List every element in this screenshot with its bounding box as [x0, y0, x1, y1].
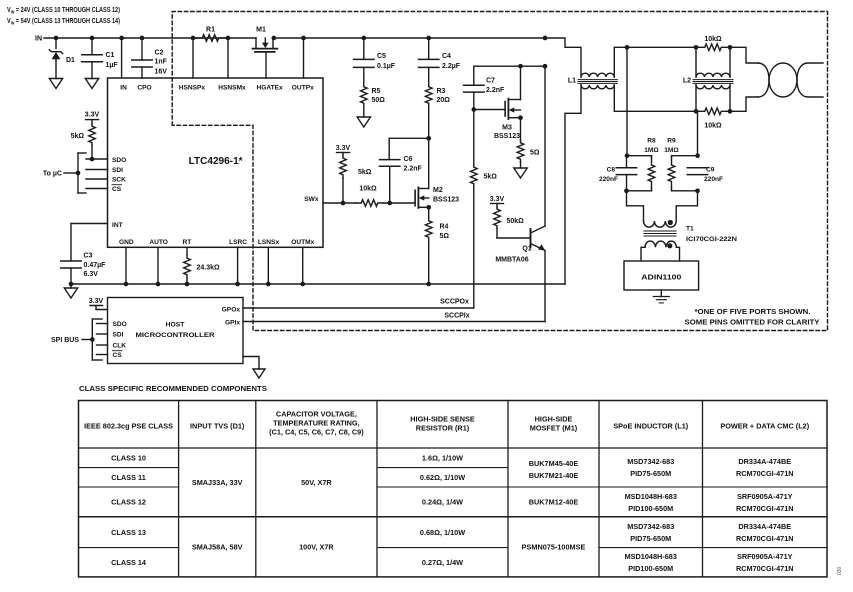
svg-text:R8: R8 [647, 138, 656, 145]
svg-text:2.2µF: 2.2µF [442, 63, 461, 70]
power 3.3V host [89, 298, 108, 310]
svg-text:HOST: HOST [166, 322, 186, 329]
svg-text:RCM70CGI-471N: RCM70CGI-471N [736, 469, 794, 478]
svg-text:IN: IN [35, 36, 42, 43]
ground M3 [514, 168, 527, 178]
wire IN pin riser [121, 38, 123, 78]
svg-text:0.62Ω, 1/10W: 0.62Ω, 1/10W [420, 473, 465, 482]
svg-text:R4: R4 [440, 224, 449, 231]
wire Q1 emitter to SCCPIx [544, 251, 546, 322]
wire main input rail [44, 37, 256, 39]
wire INT [71, 224, 108, 262]
svg-text:MSD1048H-683: MSD1048H-683 [625, 552, 677, 561]
wire Q1 base [497, 237, 531, 239]
svg-text:5kΩ: 5kΩ [71, 133, 85, 140]
wire rail to L1 top [545, 38, 581, 77]
svg-text:LSNSx: LSNSx [258, 239, 280, 246]
svg-text:C6: C6 [404, 156, 413, 163]
svg-text:CLASS 10: CLASS 10 [111, 453, 146, 462]
bus bracket SPI [92, 319, 102, 360]
svg-text:0.47µF: 0.47µF [84, 262, 107, 269]
wire M3 gate link [471, 107, 505, 112]
ground host [243, 357, 265, 379]
svg-text:OUTMx: OUTMx [291, 239, 314, 246]
op-amp U1 LTC4296-1 box [108, 78, 324, 247]
svg-text:20Ω: 20Ω [437, 97, 451, 104]
svg-text:030: 030 [837, 566, 843, 575]
capacitor C4 [419, 38, 461, 70]
svg-text:1µF: 1µF [106, 62, 119, 69]
svg-text:BUK7M21-40E: BUK7M21-40E [529, 471, 579, 480]
svg-text:0.1µF: 0.1µF [377, 63, 396, 70]
svg-text:HIGH-SIDE SENSE: HIGH-SIDE SENSE [410, 415, 475, 424]
svg-text:5kΩ: 5kΩ [484, 174, 498, 181]
table col7 cmc [736, 457, 794, 573]
svg-text:BUK7M12-40E: BUK7M12-40E [529, 498, 579, 507]
svg-text:3.3V: 3.3V [336, 145, 351, 152]
junction dots ground rail [69, 282, 431, 287]
pin label host CS [113, 351, 123, 359]
svg-text:VIN = 54V (CLASS 13 THROUGH CL: VIN = 54V (CLASS 13 THROUGH CLASS 14) [7, 18, 120, 26]
resistor 10k top [696, 36, 732, 51]
wire SDI stub [86, 169, 108, 171]
svg-text:SOME PINS OMITTED FOR CLARITY: SOME PINS OMITTED FOR CLARITY [685, 320, 820, 327]
inductor L2 [683, 47, 733, 111]
svg-text:SPoE INDUCTOR (L1): SPoE INDUCTOR (L1) [613, 422, 688, 431]
svg-text:ADIN1100: ADIN1100 [641, 272, 681, 281]
svg-text:24.3kΩ: 24.3kΩ [197, 265, 221, 272]
svg-text:Q1: Q1 [522, 246, 531, 253]
svg-text:C1: C1 [106, 52, 115, 59]
svg-text:CLASS 11: CLASS 11 [111, 473, 145, 482]
svg-text:MSD7342-683: MSD7342-683 [627, 522, 674, 531]
ground ADIN1100 earth [653, 290, 669, 303]
capacitor C1 [82, 38, 119, 79]
svg-text:*ONE OF FIVE PORTS SHOWN.: *ONE OF FIVE PORTS SHOWN. [695, 309, 811, 316]
resistor 50k Q1 [494, 204, 524, 239]
wire host CS stub [97, 354, 108, 356]
svg-text:T1: T1 [686, 226, 694, 233]
svg-text:50kΩ: 50kΩ [507, 218, 525, 225]
junction dots termination [624, 188, 700, 193]
capacitor C5 [354, 38, 396, 70]
svg-text:220nF: 220nF [599, 176, 618, 183]
svg-text:SCCPIx: SCCPIx [444, 313, 469, 320]
note pins omitted [685, 320, 820, 327]
svg-text:LTC4296-1*: LTC4296-1* [189, 156, 243, 167]
diode D1 TVS [49, 38, 75, 79]
pin label CS [112, 185, 122, 193]
caption class specific [79, 384, 267, 393]
wire L1 bottom right [614, 85, 627, 111]
pin label RT [183, 239, 192, 246]
svg-text:SDO: SDO [112, 157, 126, 164]
svg-text:R9: R9 [667, 138, 676, 145]
resistor 10k bottom [696, 108, 732, 130]
svg-text:5kΩ: 5kΩ [358, 169, 372, 176]
table col4 R1 values [420, 453, 465, 566]
svg-text:0.24Ω, 1/4W: 0.24Ω, 1/4W [422, 498, 463, 507]
svg-text:M3: M3 [502, 125, 512, 132]
svg-text:PID75-650M: PID75-650M [630, 469, 671, 478]
wire To uC [43, 171, 80, 178]
wire OUTPx riser [303, 38, 305, 78]
svg-text:RCM70CGI-471N: RCM70CGI-471N [736, 534, 794, 543]
svg-text:SMAJ58A, 58V: SMAJ58A, 58V [192, 542, 243, 551]
svg-text:PSMN075-100MSE: PSMN075-100MSE [522, 542, 586, 551]
resistor R3 [425, 67, 450, 138]
svg-text:PID100-650M: PID100-650M [628, 504, 673, 513]
svg-text:IN: IN [120, 84, 127, 91]
pin label host SDO [113, 321, 127, 328]
twisted pair [758, 63, 823, 97]
resistor 5k SCCPO [471, 110, 498, 309]
wire ground return rail [71, 283, 565, 285]
resistor 10k SWx [355, 186, 384, 207]
pin label LSRC [229, 239, 247, 246]
junction dots main rail [54, 36, 548, 41]
resistor 24.3k RT [184, 247, 220, 284]
svg-text:ICI70CGI-222N: ICI70CGI-222N [686, 236, 737, 243]
svg-text:R5: R5 [372, 88, 381, 95]
wire LSNSx pin drop [267, 247, 269, 284]
capacitor C3 [61, 253, 106, 284]
svg-text:2.2nF: 2.2nF [486, 87, 505, 94]
svg-text:SMAJ33A, 33V: SMAJ33A, 33V [192, 478, 243, 487]
wire AUTO pin drop [157, 247, 159, 284]
svg-text:SRF0905A-471Y: SRF0905A-471Y [737, 552, 793, 561]
svg-text:SDO: SDO [113, 321, 127, 328]
svg-text:D1: D1 [66, 57, 75, 64]
resistor 5ohm M3 [517, 118, 540, 168]
svg-text:C7: C7 [486, 77, 495, 84]
svg-text:C4: C4 [442, 53, 451, 60]
svg-text:CLASS 14: CLASS 14 [111, 558, 147, 567]
inductor L1 [568, 73, 617, 89]
net label VIN=54V note [7, 18, 120, 26]
pin label SWx [304, 196, 319, 203]
wire SWx [323, 201, 415, 206]
svg-text:CS: CS [113, 352, 123, 359]
svg-text:10kΩ: 10kΩ [704, 123, 722, 130]
pin label HSNSMx [218, 84, 246, 91]
svg-text:GND: GND [119, 239, 134, 246]
figure number rotated [837, 566, 843, 575]
svg-text:LSRC: LSRC [229, 239, 247, 246]
wire host SDO stub [97, 323, 108, 325]
svg-text:GPOx: GPOx [222, 306, 241, 313]
capacitor C6 [380, 156, 423, 203]
dashed port boundary [172, 12, 827, 331]
svg-text:5Ω: 5Ω [440, 233, 450, 240]
transistor M2 BSS123 [415, 138, 459, 209]
svg-text:16V: 16V [155, 69, 168, 76]
pin label HGATEx [256, 84, 283, 91]
svg-text:GPIx: GPIx [225, 319, 240, 326]
svg-text:1.6Ω, 1/10W: 1.6Ω, 1/10W [422, 453, 463, 462]
svg-text:C8: C8 [607, 167, 616, 174]
svg-text:HSNSMx: HSNSMx [218, 84, 246, 91]
wire T1 secondary leads [641, 247, 680, 261]
svg-text:HIGH-SIDE: HIGH-SIDE [535, 415, 573, 424]
svg-text:100V, X7R: 100V, X7R [299, 542, 334, 551]
wire twisted pair top lead [730, 47, 758, 63]
svg-text:MICROCONTROLLER: MICROCONTROLLER [136, 332, 215, 339]
wire M1 gate to HGATEx [265, 53, 267, 78]
wire SCK stub [86, 178, 108, 180]
ground D1 [49, 79, 62, 89]
transformer T1 [644, 220, 738, 249]
wire SPI BUS [51, 337, 95, 344]
svg-text:INPUT TVS (D1): INPUT TVS (D1) [190, 422, 245, 431]
svg-text:SRF0905A-471Y: SRF0905A-471Y [737, 492, 793, 501]
svg-text:RCM70CGI-471N: RCM70CGI-471N [736, 504, 794, 513]
svg-text:INT: INT [112, 222, 123, 229]
wire SCCPIx [243, 313, 545, 322]
pin label SDI [112, 167, 123, 174]
node IN label [35, 36, 42, 43]
svg-text:CAPACITOR VOLTAGE,: CAPACITOR VOLTAGE, [276, 410, 357, 419]
svg-text:RCM70CGI-471N: RCM70CGI-471N [736, 564, 794, 573]
table col3 cap rating [299, 478, 334, 552]
power 3.3V SWx pullup [336, 145, 351, 153]
svg-text:BUK7M45-40E: BUK7M45-40E [529, 459, 579, 468]
svg-text:6.3V: 6.3V [84, 271, 99, 278]
note one of five ports [695, 309, 811, 316]
svg-text:BSS123: BSS123 [433, 196, 459, 203]
ground R5 [357, 117, 370, 127]
svg-text:BSS123: BSS123 [494, 133, 520, 140]
svg-text:10kΩ: 10kΩ [359, 186, 377, 193]
pin label OUTPx [292, 84, 314, 91]
svg-text:CS: CS [112, 186, 122, 193]
ground C1 [85, 79, 98, 89]
svg-text:SCCPOx: SCCPOx [440, 299, 469, 306]
svg-text:3.3V: 3.3V [89, 298, 104, 305]
resistor R4 [425, 207, 449, 284]
wire main rail M1 to L1 corner [273, 37, 545, 39]
svg-text:IEEE 802.3cg PSE CLASS: IEEE 802.3cg PSE CLASS [84, 422, 173, 431]
svg-text:HSNSPx: HSNSPx [179, 84, 206, 91]
svg-text:50Ω: 50Ω [372, 97, 386, 104]
wire SCCPOx [243, 299, 474, 309]
svg-text:SDI: SDI [112, 167, 123, 174]
pin label GND [119, 239, 134, 246]
svg-text:R1: R1 [206, 27, 215, 34]
pin label AUTO [149, 239, 168, 246]
power 3.3V Q1 [490, 196, 505, 204]
capacitor C2 [132, 38, 168, 78]
transistor M1 PMOS [253, 27, 278, 52]
svg-text:MSD7342-683: MSD7342-683 [627, 457, 674, 466]
svg-text:5Ω: 5Ω [530, 150, 540, 157]
power 3.3V SDO pullup [85, 112, 100, 120]
svg-text:C3: C3 [84, 253, 93, 260]
resistor 5k SDO pullup [71, 120, 96, 162]
svg-text:SDI: SDI [113, 331, 124, 338]
capacitor C7 [464, 66, 505, 109]
pin label HSNSPx [179, 84, 206, 91]
wire host SDI stub [97, 333, 108, 335]
svg-text:To µC: To µC [43, 171, 62, 178]
svg-text:MOSFET (M1): MOSFET (M1) [530, 424, 578, 433]
wire T1 primary left [627, 191, 644, 221]
pin label host GPIx [225, 319, 240, 326]
svg-text:AUTO: AUTO [149, 239, 168, 246]
pin label CPO [137, 84, 151, 91]
svg-text:M1: M1 [256, 27, 266, 34]
svg-text:TEMPERATURE RATING,: TEMPERATURE RATING, [273, 419, 359, 428]
svg-text:M2: M2 [433, 187, 443, 194]
svg-text:3.3V: 3.3V [85, 112, 100, 119]
op-amp U2 HOST box [108, 298, 244, 364]
svg-text:CLASS 13: CLASS 13 [111, 528, 146, 537]
table grid [79, 401, 828, 577]
resistor 5k SWx pullup [340, 153, 372, 204]
svg-text:C2: C2 [155, 50, 164, 57]
svg-text:OUTPx: OUTPx [292, 84, 314, 91]
svg-text:1MΩ: 1MΩ [664, 147, 679, 154]
resistor R8 [627, 138, 660, 191]
svg-text:MSD1048H-683: MSD1048H-683 [625, 492, 677, 501]
transistor Q1 MMBTA06 [495, 66, 545, 263]
op-amp U3 ADIN1100 box [624, 261, 699, 290]
capacitor C8 [599, 156, 637, 191]
svg-text:VIN = 24V (CLASS 10 THROUGH CL: VIN = 24V (CLASS 10 THROUGH CLASS 12) [7, 7, 120, 15]
svg-text:R3: R3 [437, 88, 446, 95]
capacitor C9 [687, 167, 723, 183]
wire LSRC pin drop [237, 247, 239, 284]
svg-text:SWx: SWx [304, 196, 319, 203]
pin label LSNSx [258, 239, 280, 246]
svg-text:C9: C9 [706, 167, 715, 174]
net label VIN=24V note [7, 7, 120, 15]
wire OUTMx pin drop [302, 247, 304, 284]
wire T1 primary right [676, 191, 697, 221]
svg-text:220nF: 220nF [704, 176, 723, 183]
svg-text:CLK: CLK [113, 342, 127, 349]
wire L1 bottom left return [565, 85, 581, 284]
svg-text:1nF: 1nF [155, 59, 168, 66]
wire bottom pair link [627, 109, 698, 114]
pin label SDO [112, 157, 126, 164]
wire CS stub [86, 188, 108, 190]
svg-text:HGATEx: HGATEx [256, 84, 283, 91]
svg-text:CLASS 12: CLASS 12 [111, 498, 146, 507]
svg-text:(C1, C4, C5, C6, C7, C8, C9): (C1, C4, C5, C6, C7, C8, C9) [269, 428, 364, 437]
pin label host GPOx [222, 306, 241, 313]
wire HSNSPx riser [192, 38, 194, 78]
svg-text:DR334A-474BE: DR334A-474BE [738, 522, 791, 531]
pin label INT [112, 222, 123, 229]
wire C9 drop [695, 111, 700, 158]
pin label OUTMx [291, 239, 314, 246]
pin label host CLK [113, 342, 127, 349]
svg-text:C5: C5 [377, 53, 386, 60]
svg-text:PID100-650M: PID100-650M [628, 564, 673, 573]
svg-text:RT: RT [183, 239, 192, 246]
wire GND pin drop [125, 247, 127, 284]
pin label SCK [112, 177, 126, 184]
svg-text:CPO: CPO [137, 84, 151, 91]
wire host CLK stub [97, 344, 108, 346]
wire HSNSMx riser [227, 38, 229, 78]
wire twisted pair bottom lead [730, 97, 758, 111]
svg-text:2.2nF: 2.2nF [404, 165, 423, 172]
svg-text:1MΩ: 1MΩ [644, 147, 659, 154]
table col6 inductor [625, 457, 677, 573]
resistor R1 [193, 27, 228, 42]
svg-text:3.3V: 3.3V [490, 196, 505, 203]
svg-text:0.68Ω, 1/10W: 0.68Ω, 1/10W [420, 528, 465, 537]
svg-text:MMBTA06: MMBTA06 [495, 257, 528, 264]
table class rows col1 [111, 453, 147, 566]
pin label host SDI [113, 331, 124, 338]
wire L1 top right [614, 47, 627, 77]
wire top pair link [625, 45, 699, 50]
wire C7 M3 top link [474, 64, 548, 69]
wire C8 drop [625, 47, 630, 158]
svg-text:SCK: SCK [112, 177, 126, 184]
wire C6 top link [389, 136, 431, 160]
svg-text:L2: L2 [683, 78, 691, 85]
ground C3 rail [64, 284, 77, 298]
svg-text:L1: L1 [568, 78, 576, 85]
svg-text:SPI BUS: SPI BUS [51, 337, 79, 344]
transistor M3 BSS123 [494, 66, 523, 140]
svg-text:POWER + DATA CMC (L2): POWER + DATA CMC (L2) [720, 422, 809, 431]
svg-text:PID75-650M: PID75-650M [630, 534, 671, 543]
table col2 TVS [192, 478, 243, 552]
bus bracket to uC [78, 153, 86, 193]
svg-text:CLASS SPECIFIC RECOMMENDED COM: CLASS SPECIFIC RECOMMENDED COMPONENTS [79, 384, 267, 393]
table col5 MOSFET [522, 459, 586, 551]
svg-text:10kΩ: 10kΩ [704, 36, 722, 43]
table header row [84, 410, 810, 437]
svg-text:DR334A-474BE: DR334A-474BE [738, 457, 791, 466]
pin label IN [120, 84, 127, 91]
svg-text:50V, X7R: 50V, X7R [301, 478, 332, 487]
svg-text:RESISTOR (R1): RESISTOR (R1) [416, 424, 470, 433]
resistor R5 [361, 67, 386, 117]
svg-text:0.27Ω, 1/4W: 0.27Ω, 1/4W [422, 558, 463, 567]
resistor R9 [664, 138, 697, 191]
wire SDO stub [86, 158, 108, 160]
